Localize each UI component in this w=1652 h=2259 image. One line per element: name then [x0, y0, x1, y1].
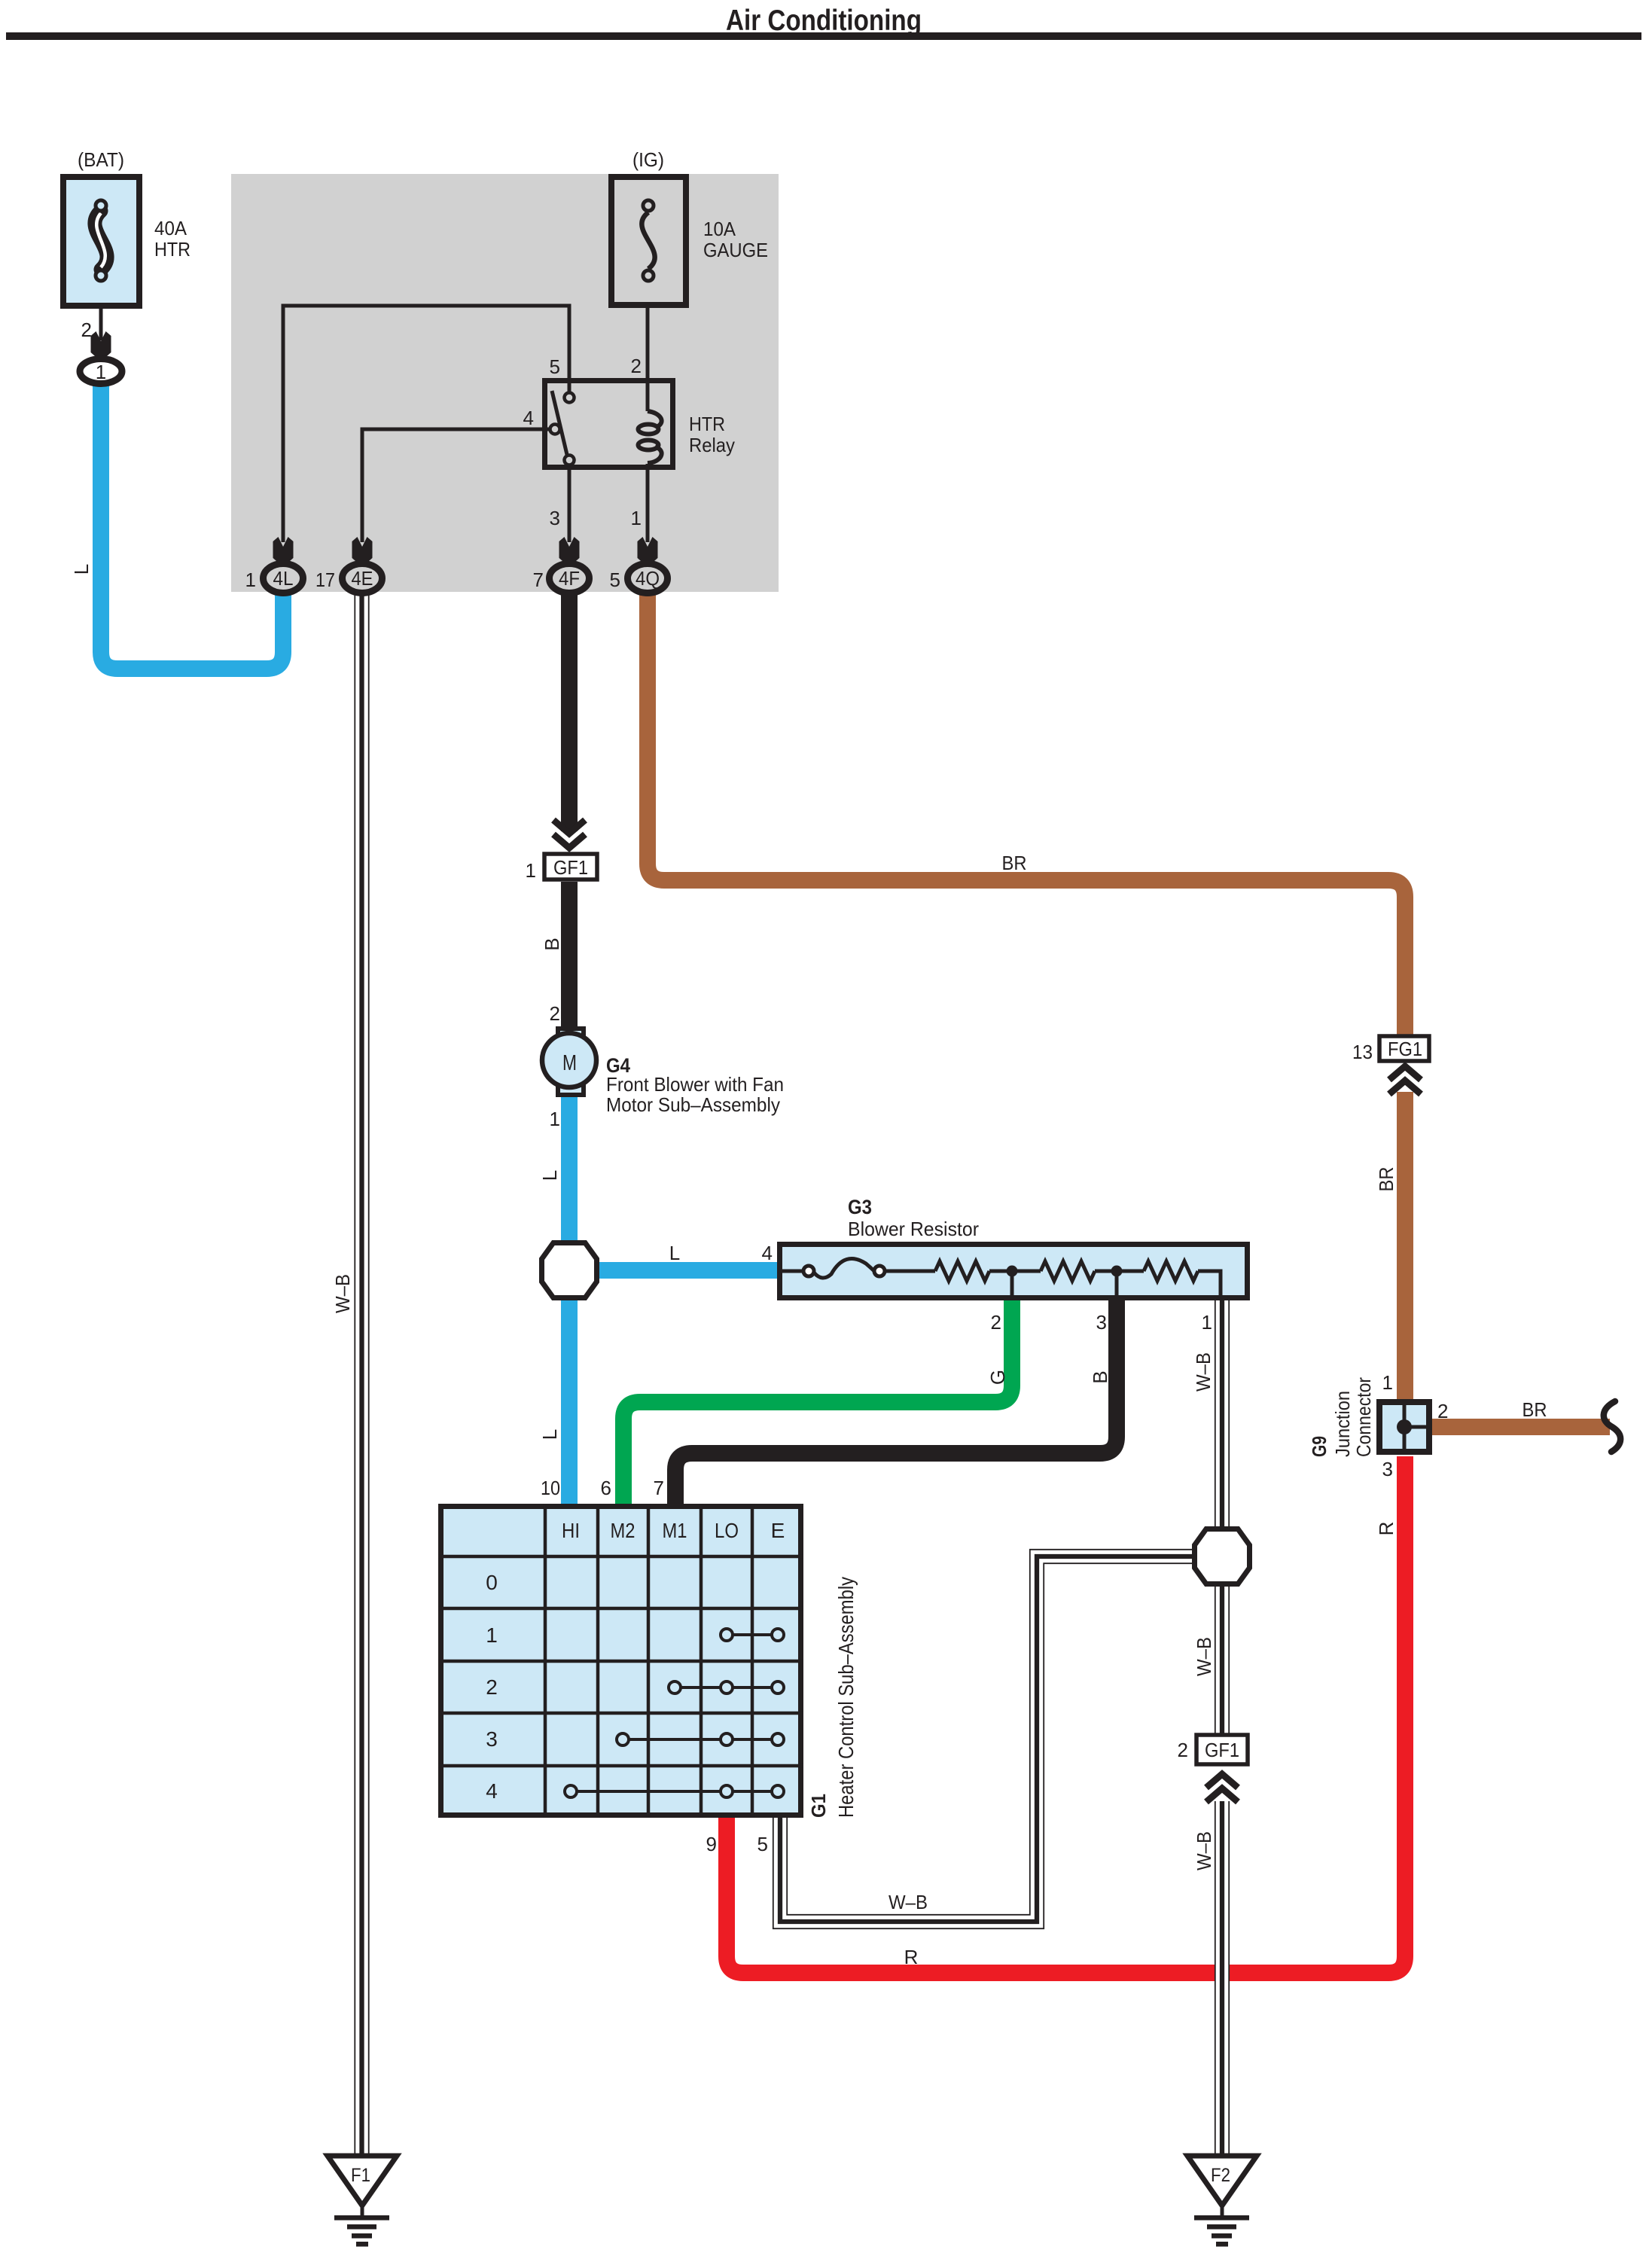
svg-text:0: 0	[486, 1571, 498, 1594]
svg-text:1: 1	[631, 507, 642, 529]
svg-text:F1: F1	[351, 2165, 370, 2186]
svg-text:B: B	[1089, 1370, 1111, 1383]
connector oval 4F	[550, 564, 590, 593]
connector FG1 double chevron	[1389, 1066, 1421, 1094]
svg-text:7: 7	[533, 569, 544, 591]
svg-text:4Q: 4Q	[636, 567, 660, 590]
svg-text:L: L	[538, 1170, 561, 1181]
svg-text:W–B: W–B	[1193, 1637, 1215, 1676]
svg-text:2: 2	[1437, 1400, 1448, 1422]
wire from 4E to relay pin 4	[362, 429, 553, 542]
wire B (black) GF1 to motor G4	[561, 882, 578, 1032]
svg-text:G1: G1	[807, 1794, 830, 1818]
wire BR (brown) G9 pin 2 to right squiggle	[1431, 1419, 1610, 1435]
svg-text:L: L	[70, 564, 93, 575]
svg-text:2: 2	[486, 1675, 498, 1699]
fuse 40A HTR (BAT) box	[63, 177, 139, 306]
svg-text:5: 5	[757, 1833, 768, 1855]
wire W-B GF1 (2) to ground F2	[1215, 1801, 1229, 2155]
junction connector G9 box	[1379, 1402, 1429, 1452]
svg-text:E: E	[771, 1519, 785, 1542]
svg-text:Relay: Relay	[689, 434, 735, 456]
svg-text:BR: BR	[1002, 852, 1027, 874]
wire relay coil pin 1 to 4Q	[646, 464, 650, 542]
connector oval 4Q	[628, 564, 668, 593]
svg-text:4F: 4F	[559, 567, 580, 590]
wire W-B heater control pin 5 to octagon 2	[773, 1550, 1205, 1928]
heater control G1 switch contacts row 2	[669, 1681, 784, 1693]
svg-text:1: 1	[550, 1108, 560, 1130]
svg-text:L: L	[669, 1242, 680, 1264]
svg-text:2: 2	[81, 319, 92, 341]
svg-text:W–B: W–B	[1193, 1831, 1215, 1870]
connector oval 4L	[264, 564, 303, 593]
ground F2	[1187, 2156, 1257, 2247]
svg-text:1: 1	[1382, 1371, 1393, 1394]
svg-text:GF1: GF1	[553, 856, 588, 879]
svg-text:BR: BR	[1522, 1398, 1547, 1421]
svg-text:GAUGE: GAUGE	[703, 239, 768, 261]
resistor G3 Blower Resistor box	[780, 1245, 1248, 1298]
svg-text:6: 6	[601, 1477, 611, 1499]
connector FG1 pin 13 box	[1379, 1036, 1429, 1061]
wire G (green) resistor pin 2 to heater control pin 6	[623, 1297, 1012, 1504]
svg-text:M: M	[562, 1051, 577, 1075]
svg-text:2: 2	[1178, 1739, 1188, 1761]
heater control G1 header labels	[562, 1519, 785, 1542]
wire relay pin 3 to 4F	[568, 470, 571, 542]
svg-text:2: 2	[631, 355, 642, 377]
connector arrow into 4E	[352, 537, 373, 567]
svg-text:HTR: HTR	[689, 413, 725, 435]
svg-text:W–B: W–B	[888, 1891, 928, 1913]
svg-text:17: 17	[315, 569, 335, 591]
svg-text:R: R	[1375, 1522, 1397, 1536]
connector GF1 pin 1 box	[544, 854, 597, 880]
svg-text:4: 4	[762, 1242, 773, 1264]
svg-text:5: 5	[550, 355, 560, 378]
relay switch contacts	[550, 391, 575, 465]
svg-text:3: 3	[1382, 1458, 1393, 1480]
svg-text:4: 4	[486, 1779, 498, 1803]
svg-text:40A: 40A	[154, 217, 187, 239]
wire W-B 4E to ground F1	[355, 592, 368, 2155]
svg-text:(BAT): (BAT)	[78, 148, 124, 171]
svg-text:10A: 10A	[703, 218, 736, 240]
heater control G1 switch contacts row 4	[565, 1785, 784, 1797]
svg-text:3: 3	[1096, 1311, 1107, 1334]
wire L (blue) octagon to blower resistor pin 4	[569, 1262, 780, 1279]
connector oval 4E	[343, 564, 383, 593]
connector oval 1	[80, 359, 122, 384]
svg-text:W–B: W–B	[1192, 1352, 1215, 1392]
relay coil	[639, 411, 662, 463]
svg-text:2: 2	[550, 1002, 560, 1025]
connector arrow into oval 1	[91, 331, 111, 361]
svg-text:Blower Resistor: Blower Resistor	[848, 1218, 979, 1240]
svg-text:Connector: Connector	[1352, 1377, 1375, 1457]
connector arrow into 4Q	[638, 537, 658, 567]
svg-text:3: 3	[486, 1727, 498, 1751]
svg-text:LO: LO	[715, 1519, 739, 1542]
wire IG fuse to relay coil pin 2	[646, 308, 650, 411]
svg-text:B: B	[541, 937, 563, 950]
fuse 40A HTR element	[95, 200, 107, 281]
wire R (red) heater control pin 9 to G9 pin 3	[727, 1456, 1405, 1973]
motor G4 Front Blower with Fan Motor Sub-Assembly	[542, 1029, 596, 1095]
wire W-B (thin) resistor pin 1 to octagon 2	[1215, 1300, 1229, 1733]
svg-text:9: 9	[706, 1833, 717, 1855]
wire BR continuation squiggle	[1604, 1401, 1620, 1452]
wire BR (brown) FG1 to G9	[1397, 1092, 1413, 1401]
connector GF1 pin 2 box	[1196, 1735, 1248, 1764]
wire from 4L to relay pin 5	[283, 306, 569, 542]
svg-text:M2: M2	[611, 1519, 636, 1542]
svg-text:1: 1	[526, 859, 536, 882]
relay HTR Relay box	[545, 381, 673, 468]
connector GF1 pin 2 double chevron	[1206, 1774, 1238, 1802]
svg-text:L: L	[538, 1429, 561, 1440]
ground F1	[328, 2156, 397, 2247]
title underline	[6, 32, 1641, 40]
wire L (blue) motor to octagon node and heater control pin 10	[561, 1089, 578, 1504]
svg-text:Front Blower with Fan: Front Blower with Fan	[606, 1073, 784, 1096]
wire L (blue) from connector 1 to 4L	[101, 376, 283, 669]
svg-text:R: R	[904, 1946, 919, 1968]
svg-text:3: 3	[550, 507, 560, 529]
svg-text:5: 5	[610, 569, 620, 591]
heater control G1 switch contacts row 3	[617, 1733, 784, 1745]
svg-text:Air Conditioning: Air Conditioning	[726, 5, 922, 37]
svg-text:HTR: HTR	[154, 238, 190, 261]
junction block grey background	[231, 174, 779, 592]
svg-text:7: 7	[654, 1477, 664, 1499]
fuse 10A GAUGE element	[642, 200, 654, 281]
svg-text:1: 1	[96, 361, 106, 383]
svg-text:10: 10	[541, 1477, 560, 1499]
svg-text:G9: G9	[1308, 1436, 1330, 1457]
heater control G1 switch contacts row 1	[721, 1629, 784, 1641]
node octagon 1 (blue wire junction)	[542, 1243, 597, 1298]
svg-text:13: 13	[1352, 1041, 1373, 1063]
svg-text:1: 1	[486, 1623, 498, 1647]
wire B (black) 4F to GF1	[561, 587, 578, 831]
resistor G3 internal elements	[782, 1259, 1221, 1296]
svg-text:Junction: Junction	[1331, 1391, 1354, 1457]
heater control G1 row labels	[486, 1571, 498, 1803]
svg-text:GF1: GF1	[1205, 1739, 1239, 1761]
wire BR (brown) 4Q to FG1	[648, 587, 1405, 1035]
heater control G1 table box	[441, 1507, 801, 1815]
svg-text:G3: G3	[848, 1196, 872, 1218]
svg-text:4: 4	[523, 407, 534, 429]
connector GF1 pin 1 double chevron	[553, 820, 585, 848]
svg-text:G: G	[986, 1370, 1009, 1385]
wire BAT fuse pin 2	[99, 309, 103, 340]
fuse 10A GAUGE (IG) box	[611, 177, 686, 305]
wire B (black) resistor pin 3 to heater control pin 7	[675, 1297, 1117, 1504]
svg-text:M1: M1	[663, 1519, 687, 1542]
svg-text:(IG): (IG)	[632, 148, 664, 171]
svg-text:2: 2	[991, 1311, 1001, 1334]
svg-text:1: 1	[245, 569, 256, 591]
svg-text:Motor Sub–Assembly: Motor Sub–Assembly	[606, 1093, 780, 1116]
svg-text:F2: F2	[1211, 2165, 1230, 2186]
svg-text:4L: 4L	[273, 567, 294, 590]
svg-text:W–B: W–B	[331, 1274, 354, 1313]
svg-text:4E: 4E	[352, 567, 373, 590]
svg-text:BR: BR	[1375, 1167, 1397, 1192]
svg-text:Heater Control Sub–Assembly: Heater Control Sub–Assembly	[834, 1577, 858, 1818]
title Air Conditioning	[726, 5, 922, 37]
node octagon 2 (W-B wire junction)	[1195, 1529, 1250, 1584]
connector arrow into 4F	[559, 537, 580, 567]
heater control G1 grid lines	[438, 1504, 803, 1818]
connector arrow into 4L	[273, 537, 294, 567]
svg-text:FG1: FG1	[1388, 1038, 1422, 1060]
svg-text:HI: HI	[562, 1519, 580, 1542]
svg-text:1: 1	[1202, 1311, 1212, 1334]
